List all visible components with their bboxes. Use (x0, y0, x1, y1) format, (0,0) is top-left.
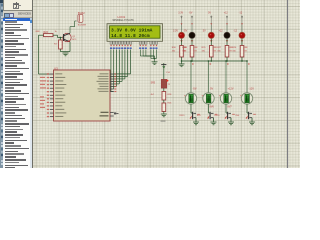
svg-text:5V: 5V (210, 88, 213, 91)
svg-text:R28: R28 (168, 94, 173, 96)
svg-text:25: 25 (168, 84, 171, 86)
svg-text:+: + (202, 94, 204, 98)
svg-text:R920: R920 (215, 115, 221, 117)
svg-text:-12: -12 (239, 13, 243, 15)
svg-text:BC5: BC5 (72, 39, 77, 41)
svg-text:+: + (240, 94, 242, 98)
svg-text:BUZZER: BUZZER (78, 24, 87, 26)
svg-text:Q1: Q1 (72, 36, 76, 38)
svg-text:R26: R26 (168, 102, 173, 104)
svg-text:5V: 5V (208, 13, 211, 15)
svg-text:C14: C14 (166, 72, 171, 74)
svg-text:4k7: 4k7 (151, 94, 155, 96)
svg-text:SR5: SR5 (151, 82, 156, 84)
svg-text:R27: R27 (217, 47, 222, 49)
svg-text:R25: R25 (202, 47, 207, 49)
svg-text:8V7: 8V7 (228, 106, 233, 109)
svg-text:+12: +12 (219, 29, 224, 32)
svg-text:330: 330 (217, 51, 221, 53)
svg-text:WH2004A-YYH-CTK: WH2004A-YYH-CTK (113, 19, 135, 22)
svg-text:330: 330 (202, 51, 206, 53)
svg-text:R36: R36 (172, 47, 177, 49)
svg-text:8V0: 8V0 (236, 115, 241, 117)
svg-text:+12: +12 (224, 13, 229, 15)
svg-text:-5V: -5V (184, 29, 188, 32)
svg-text:330: 330 (172, 51, 176, 53)
svg-text:+: + (184, 94, 186, 98)
svg-text:R919: R919 (180, 115, 186, 117)
svg-text:330: 330 (232, 51, 236, 53)
svg-text:+: + (219, 94, 221, 98)
svg-text:8V6: 8V6 (210, 106, 215, 109)
svg-text:1k: 1k (55, 31, 58, 33)
svg-text:3.3V: 3.3V (173, 29, 178, 32)
svg-text:-12V: -12V (249, 88, 255, 91)
svg-text:R3: R3 (54, 44, 57, 46)
svg-text:8V9: 8V9 (197, 115, 202, 117)
svg-text:-5V: -5V (189, 13, 193, 15)
svg-text:-12: -12 (234, 29, 238, 32)
svg-text:+12V: +12V (228, 88, 234, 91)
svg-text:5V: 5V (203, 29, 206, 32)
svg-text:3.3V: 3.3V (178, 13, 183, 15)
svg-text:-5V: -5V (193, 88, 197, 91)
svg-text:3.3V 0.0V 191mA: 3.3V 0.0V 191mA (111, 27, 153, 33)
svg-text:LCD1: LCD1 (118, 15, 126, 19)
svg-text:R26: R26 (232, 47, 237, 49)
svg-text:14.8 11.8 20cm: 14.8 11.8 20cm (111, 33, 150, 39)
